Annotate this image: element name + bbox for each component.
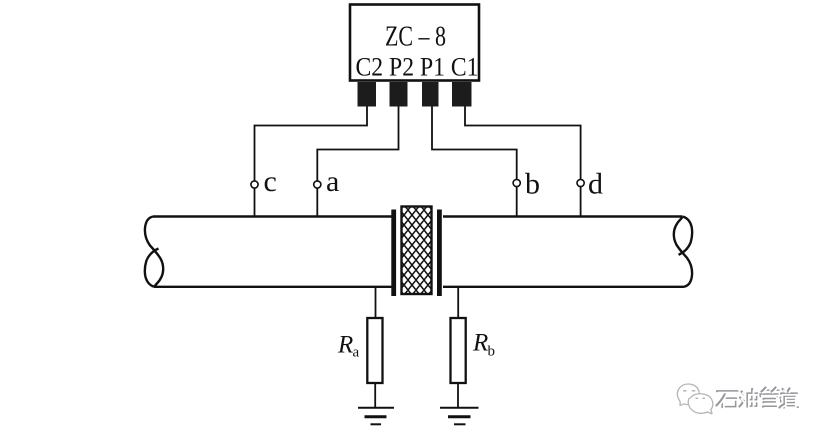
svg-text:b: b	[488, 344, 496, 360]
svg-text:ZC – 8: ZC – 8	[385, 22, 446, 53]
svg-text:a: a	[353, 345, 360, 361]
svg-text:C2 P2 P1 C1: C2 P2 P1 C1	[356, 53, 479, 82]
svg-text:c: c	[264, 165, 277, 198]
svg-text:a: a	[326, 165, 339, 198]
svg-text:R: R	[472, 330, 488, 357]
svg-text:b: b	[525, 168, 540, 201]
svg-text:d: d	[588, 168, 603, 201]
svg-text:R: R	[337, 332, 353, 359]
